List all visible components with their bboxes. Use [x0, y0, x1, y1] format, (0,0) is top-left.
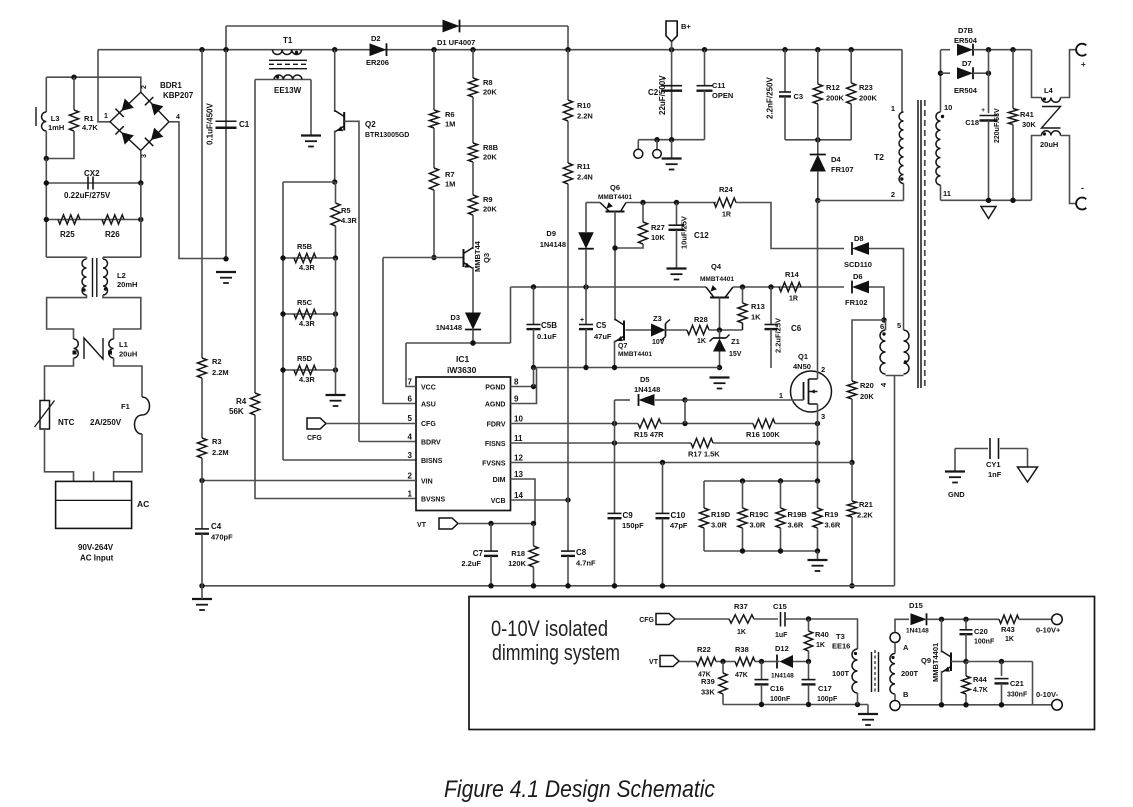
resistor R11 2.4N	[563, 163, 572, 184]
resistor R5C 4.3R row	[283, 313, 336, 315]
junction	[815, 47, 820, 52]
svg-text:1K: 1K	[751, 313, 761, 322]
diode D4 FR107	[810, 155, 826, 172]
polarity mark	[295, 51, 298, 54]
svg-text:D6: D6	[853, 272, 863, 281]
connector B	[890, 701, 900, 711]
svg-text:20K: 20K	[483, 205, 497, 214]
svg-text:1uF: 1uF	[775, 632, 788, 639]
wire D5 left leg	[614, 400, 616, 424]
svg-text:0-10V+: 0-10V+	[1036, 626, 1061, 635]
svg-text:2.2uF: 2.2uF	[461, 559, 481, 568]
svg-text:EE16: EE16	[832, 642, 850, 651]
svg-text:4.3R: 4.3R	[299, 263, 315, 272]
wire pin8 PGND	[511, 386, 534, 388]
svg-text:1M: 1M	[445, 180, 455, 189]
resistor R38 47K	[735, 657, 755, 665]
svg-text:R27: R27	[651, 223, 665, 232]
terminal 0-10V+	[1052, 614, 1063, 625]
svg-text:R38: R38	[735, 645, 749, 654]
ground T1	[301, 134, 321, 136]
svg-text:Q1: Q1	[798, 352, 808, 361]
polarity mark	[82, 288, 85, 291]
polarity mark	[891, 656, 894, 659]
svg-text:R4: R4	[236, 397, 247, 406]
svg-text:MMBT4401: MMBT4401	[618, 351, 652, 358]
wire pin5 CFG	[326, 423, 416, 425]
svg-text:0.22uF/275V: 0.22uF/275V	[64, 191, 111, 200]
svg-text:R19C: R19C	[750, 510, 770, 519]
junction	[223, 47, 228, 52]
capacitor C17 100pF	[802, 679, 816, 681]
wire R24 to D8	[736, 203, 844, 249]
junction	[531, 365, 536, 370]
svg-text:30K: 30K	[1022, 120, 1036, 129]
junction	[815, 440, 820, 445]
wire Q1 drain	[817, 201, 819, 380]
capacitor C8 4.7nF	[561, 550, 575, 552]
junction	[669, 47, 674, 52]
junction	[71, 75, 76, 80]
svg-text:7: 7	[408, 378, 413, 387]
wire dim bottom row	[900, 704, 1051, 706]
resistor R5 4.3R	[331, 203, 340, 226]
wire W2 main rail	[98, 49, 902, 51]
svg-text:dimming system: dimming system	[492, 640, 620, 665]
svg-text:R9: R9	[483, 195, 493, 204]
svg-text:EE13W: EE13W	[274, 86, 302, 95]
svg-text:5: 5	[408, 414, 413, 423]
svg-text:Q3: Q3	[482, 253, 491, 263]
svg-text:B: B	[903, 690, 909, 699]
capacitor C5B 0.1uF	[527, 324, 541, 326]
inductor L1 left winding	[74, 339, 79, 358]
connector pins near C2	[637, 140, 639, 150]
svg-text:1: 1	[408, 490, 413, 499]
wire left rail	[45, 159, 47, 258]
svg-text:8: 8	[514, 378, 519, 387]
junction	[669, 137, 674, 142]
wire to ground	[817, 551, 819, 560]
resistor R43 1K	[999, 615, 1019, 623]
wire Q2 collector	[334, 50, 336, 112]
resistor R37 1K	[729, 615, 754, 623]
wire to pin6 ASU	[383, 258, 416, 404]
resistor R19D 3.0R	[699, 508, 708, 528]
svg-text:Z3: Z3	[653, 314, 662, 323]
resistor R26	[102, 215, 124, 224]
resistor R13 1K	[738, 303, 747, 323]
wire AGND bus	[534, 367, 720, 369]
svg-text:C10: C10	[671, 511, 686, 520]
polarity mark	[900, 177, 903, 180]
junction	[583, 284, 588, 289]
svg-text:1N4148: 1N4148	[634, 385, 660, 394]
svg-text:C8: C8	[576, 548, 587, 557]
junction	[333, 255, 338, 260]
inductor L4	[1032, 50, 1042, 98]
wire VT row	[458, 523, 534, 525]
wire D7B row	[941, 49, 951, 51]
junction	[999, 659, 1004, 664]
wire R12 top	[817, 50, 819, 84]
svg-text:FVSNS: FVSNS	[482, 461, 506, 468]
resistor R28 1K	[687, 325, 709, 334]
svg-text:200T: 200T	[901, 669, 919, 678]
svg-text:4: 4	[176, 114, 180, 121]
wire R25 R26 row	[46, 219, 141, 221]
junction	[531, 583, 536, 588]
resistor R23 200K	[847, 83, 856, 104]
wire C17 top	[808, 662, 810, 680]
diode D7B ER504	[957, 44, 973, 56]
svg-text:AC: AC	[137, 499, 149, 509]
svg-text:FR107: FR107	[831, 165, 854, 174]
svg-text:CFG: CFG	[421, 421, 436, 428]
MOSFET Q1 4N50	[791, 371, 832, 412]
svg-text:C17: C17	[818, 684, 832, 693]
wire C10 top	[662, 463, 664, 514]
junction	[199, 478, 204, 483]
wire PGND row	[511, 286, 707, 288]
capacitor C4 470pF	[195, 528, 209, 530]
diode D3 1N4148	[465, 313, 481, 330]
svg-text:11: 11	[514, 434, 523, 443]
wire C21 top	[1001, 662, 1003, 677]
resistor R7 1M	[429, 168, 438, 190]
svg-text:5: 5	[897, 321, 901, 330]
svg-text:R40: R40	[815, 630, 829, 639]
T2 aux winding B	[904, 330, 910, 374]
svg-text:IC1: IC1	[456, 354, 470, 364]
inductor L1 right winding	[109, 339, 114, 358]
svg-text:FISNS: FISNS	[485, 441, 506, 448]
svg-text:R44: R44	[973, 675, 988, 684]
wire R5D to ground	[335, 370, 337, 395]
resistor R4 56K	[250, 393, 259, 415]
polarity mark	[104, 287, 107, 290]
wire to minus rail	[1032, 662, 1034, 705]
wire BISNS rail	[282, 182, 284, 460]
wire R1 top	[73, 77, 75, 110]
capacitor C21 330nF	[995, 678, 1009, 680]
svg-text:R5D: R5D	[297, 354, 313, 363]
svg-text:L1: L1	[119, 340, 128, 349]
capacitor CX2	[87, 177, 89, 190]
svg-text:470pF: 470pF	[211, 533, 233, 542]
svg-text:ER206: ER206	[366, 58, 389, 67]
junction	[759, 702, 764, 707]
wire C7 top	[490, 524, 492, 552]
polarity mark	[904, 360, 907, 363]
wire to R20	[852, 320, 884, 381]
zener Z3 10V	[651, 324, 666, 337]
AC middle stub	[93, 471, 95, 481]
svg-text:3: 3	[821, 412, 825, 421]
junction	[815, 548, 820, 553]
wire pin9 AGND	[511, 368, 537, 404]
wire Q3 emitter to D3	[472, 267, 474, 313]
L2 core	[92, 258, 94, 297]
junction	[815, 478, 820, 483]
wire C20 top	[965, 619, 967, 629]
junction	[778, 478, 783, 483]
junction	[849, 460, 854, 465]
T2 primary winding	[899, 112, 903, 184]
junction	[720, 659, 725, 664]
transistor Q4 MMBT4401	[710, 297, 729, 299]
L4 bottom winding	[1042, 131, 1061, 136]
svg-text:R19B: R19B	[788, 510, 808, 519]
svg-text:Q9: Q9	[921, 656, 931, 665]
junction	[531, 384, 536, 389]
ground Z1	[710, 376, 730, 378]
svg-text:R21: R21	[859, 500, 873, 509]
resistor R27 10K	[638, 222, 647, 244]
wire W1 drop	[567, 26, 569, 50]
polarity mark	[1043, 97, 1046, 100]
junction	[470, 340, 475, 345]
net flag B+	[666, 21, 677, 42]
junction	[565, 497, 570, 502]
svg-text:2A/250V: 2A/250V	[90, 418, 122, 427]
svg-text:C16: C16	[770, 684, 784, 693]
capacitor C3 2.2nF/250V	[779, 91, 791, 93]
wire R4 to pin1 BVSNS	[255, 415, 416, 499]
wire Q2 emitter	[334, 131, 336, 183]
svg-text:VIN: VIN	[421, 479, 433, 486]
junction	[806, 702, 811, 707]
junction	[1010, 198, 1015, 203]
junction	[717, 365, 722, 370]
svg-text:3.0R: 3.0R	[711, 521, 727, 530]
svg-text:1N4148: 1N4148	[771, 673, 794, 680]
junction	[938, 71, 943, 76]
diode D5 1N4148	[639, 394, 655, 406]
wire W2 right drop to T2 pin1	[901, 50, 903, 112]
svg-text:1N4148: 1N4148	[540, 240, 566, 249]
wire R19 bank top	[704, 480, 818, 482]
fuse F1 2A/250V	[135, 397, 150, 434]
svg-text:T3: T3	[836, 632, 845, 641]
capacitor C18 220uF/63V	[980, 115, 998, 117]
connector AC input	[56, 481, 132, 528]
wire C5 top	[585, 287, 587, 324]
resistor R16 100K	[753, 419, 775, 428]
wire R13 top	[742, 287, 744, 303]
svg-text:D7B: D7B	[958, 26, 974, 35]
svg-text:BISNS: BISNS	[421, 458, 443, 465]
svg-text:R43: R43	[1001, 625, 1015, 634]
junction	[280, 255, 285, 260]
junction	[44, 217, 49, 222]
wire pin2 VIN	[202, 480, 416, 482]
svg-text:0.1uF: 0.1uF	[537, 332, 557, 341]
capacitor C16 100nF	[755, 679, 769, 681]
svg-text:20uH: 20uH	[119, 350, 137, 359]
svg-text:100nF: 100nF	[770, 696, 791, 703]
wire R19 bank bottom	[704, 550, 818, 552]
svg-text:CY1: CY1	[986, 460, 1001, 469]
junction	[815, 421, 820, 426]
transistor Q2 BTR13005GD	[343, 112, 345, 131]
svg-text:VT: VT	[417, 522, 427, 529]
wire R5 top row	[283, 181, 335, 183]
wire to C4	[201, 481, 203, 530]
junction	[332, 179, 337, 184]
junction	[612, 421, 617, 426]
junction	[223, 256, 228, 261]
junction	[815, 198, 820, 203]
svg-text:VT: VT	[649, 659, 659, 666]
wire CY1 right	[1027, 449, 1029, 467]
svg-text:VCC: VCC	[421, 385, 436, 392]
junction	[612, 365, 617, 370]
svg-text:ER504: ER504	[954, 86, 978, 95]
junction	[963, 702, 968, 707]
net flag CFG dim	[656, 614, 675, 625]
junction	[612, 583, 617, 588]
wire R18 top	[533, 524, 535, 547]
svg-text:C9: C9	[623, 511, 634, 520]
wire to ground	[671, 140, 673, 158]
T2 core	[917, 100, 919, 388]
wire C6 top	[770, 287, 772, 324]
svg-text:R14: R14	[785, 270, 800, 279]
wire C9 top	[614, 443, 616, 513]
svg-text:R5: R5	[341, 206, 351, 215]
capacitor C11 OPEN	[697, 85, 713, 87]
svg-text:R11: R11	[577, 162, 590, 171]
svg-text:D8: D8	[854, 234, 864, 243]
svg-text:R13: R13	[751, 302, 765, 311]
svg-text:R18: R18	[511, 549, 525, 558]
L2 right winding	[103, 259, 108, 295]
svg-text:1N4148: 1N4148	[436, 323, 462, 332]
wire Q4 base	[719, 298, 721, 331]
svg-text:R16 100K: R16 100K	[746, 430, 780, 439]
resistor R8B 20K	[468, 143, 477, 162]
svg-text:90V-264V: 90V-264V	[78, 543, 114, 552]
junction	[138, 180, 143, 185]
ground near C2	[662, 157, 682, 159]
junction	[44, 156, 49, 161]
svg-text:L3: L3	[51, 114, 60, 123]
svg-text:33K: 33K	[701, 688, 715, 697]
svg-text:-: -	[1081, 183, 1084, 193]
diode D8 SCD110	[852, 242, 869, 255]
svg-text:KBP207: KBP207	[163, 91, 194, 100]
wire CFG to T3	[809, 619, 858, 649]
resistor R1 4.7K	[69, 110, 78, 131]
junction	[740, 478, 745, 483]
wire to fuse F1	[114, 358, 142, 397]
svg-text:20uH: 20uH	[1040, 140, 1058, 149]
L4 core	[1042, 107, 1061, 129]
junction	[138, 217, 143, 222]
junction	[333, 367, 338, 372]
ground C12	[667, 267, 687, 269]
svg-text:3: 3	[141, 154, 148, 158]
svg-text:R1: R1	[84, 114, 94, 123]
svg-text:CX2: CX2	[84, 169, 100, 178]
wire Q6 collector row	[626, 202, 716, 204]
svg-text:DIM: DIM	[493, 477, 506, 484]
junction	[674, 200, 679, 205]
svg-text:R6: R6	[445, 110, 455, 119]
diode D7 ER504	[957, 67, 973, 79]
svg-text:220uF/63V: 220uF/63V	[994, 108, 1001, 143]
svg-text:R26: R26	[105, 230, 120, 239]
wire Q9 emitter	[941, 671, 943, 705]
polarity mark	[276, 75, 279, 78]
svg-text:R7: R7	[445, 170, 455, 179]
connector A	[890, 633, 900, 643]
junction	[531, 284, 536, 289]
junction	[881, 317, 886, 322]
junction	[759, 659, 764, 664]
svg-text:2.2M: 2.2M	[212, 448, 229, 457]
svg-text:C21: C21	[1010, 679, 1024, 688]
svg-text:1: 1	[891, 104, 895, 113]
junction	[963, 659, 968, 664]
svg-text:150pF: 150pF	[622, 521, 644, 530]
wire to bridge pin2	[46, 77, 141, 92]
resistor R3 2.2M	[197, 438, 206, 458]
wire D4 row to T2 pin2	[818, 200, 904, 202]
wire Q2 base to pin4 BDRV	[344, 121, 359, 441]
junction	[682, 397, 687, 402]
svg-text:4.3R: 4.3R	[341, 216, 357, 225]
L4 top winding	[1042, 98, 1061, 103]
svg-text:C4: C4	[211, 522, 222, 531]
wire L2 to L1 left	[47, 295, 87, 339]
svg-text:R10: R10	[577, 101, 591, 110]
svg-text:C1: C1	[239, 120, 250, 129]
wire C2 branch	[671, 50, 673, 140]
T1 secondary winding	[274, 75, 302, 80]
svg-text:D7: D7	[962, 59, 972, 68]
junction	[849, 583, 854, 588]
svg-text:2.2nF/250V: 2.2nF/250V	[766, 77, 775, 119]
diode D1 UF4007	[443, 20, 460, 33]
svg-text:T1: T1	[283, 36, 293, 45]
svg-text:R22: R22	[697, 645, 711, 654]
wire L2 to L1 right	[103, 295, 141, 339]
transformer L2 20mH	[46, 256, 86, 258]
svg-text:56K: 56K	[229, 407, 244, 416]
svg-text:R20: R20	[860, 381, 874, 390]
svg-text:MMBT4401: MMBT4401	[598, 194, 632, 201]
capacitor C9 150pF	[608, 512, 622, 514]
box 0-10V dimming system	[469, 597, 1095, 730]
junction	[488, 583, 493, 588]
svg-text:1: 1	[104, 113, 108, 120]
svg-text:22uF/500V: 22uF/500V	[658, 75, 667, 115]
svg-text:100nF: 100nF	[974, 639, 995, 646]
svg-text:0-10V isolated: 0-10V isolated	[491, 616, 608, 641]
wire pin12 FVSNS row	[511, 462, 853, 464]
svg-text:100pF: 100pF	[817, 696, 838, 703]
earth symbol output	[981, 207, 996, 219]
wire L3 top	[45, 77, 47, 112]
junction	[815, 137, 820, 142]
svg-text:2.4N: 2.4N	[577, 173, 593, 182]
wire T1 sec right to gnd	[310, 80, 312, 136]
wire Q7 emitter	[614, 341, 616, 368]
junction	[333, 311, 338, 316]
transistor Q3 MMBT44	[463, 249, 465, 267]
